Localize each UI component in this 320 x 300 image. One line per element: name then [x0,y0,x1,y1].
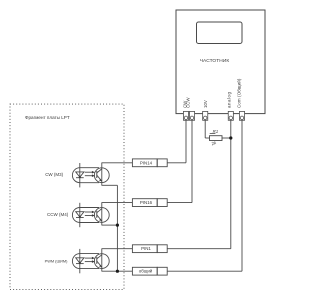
svg-text:Фрагмент платы LPT: Фрагмент платы LPT [25,115,70,120]
svg-text:Com (Общий): Com (Общий) [237,78,242,108]
svg-text:CCW (M4): CCW (M4) [47,212,69,217]
svg-text:analog: analog [227,92,232,109]
svg-text:CCW: CCW [186,97,191,108]
svg-text:PIN1: PIN1 [141,246,151,251]
svg-text:PIN14: PIN14 [140,160,153,165]
svg-text:10V: 10V [203,100,208,108]
svg-text:CW (M3): CW (M3) [45,172,63,177]
svg-text:PIN16: PIN16 [140,200,153,205]
svg-text:ЧАСТОТНИК: ЧАСТОТНИК [200,58,230,64]
svg-text:PWM (ШИМ): PWM (ШИМ) [45,259,68,264]
svg-text:общий: общий [139,269,153,274]
